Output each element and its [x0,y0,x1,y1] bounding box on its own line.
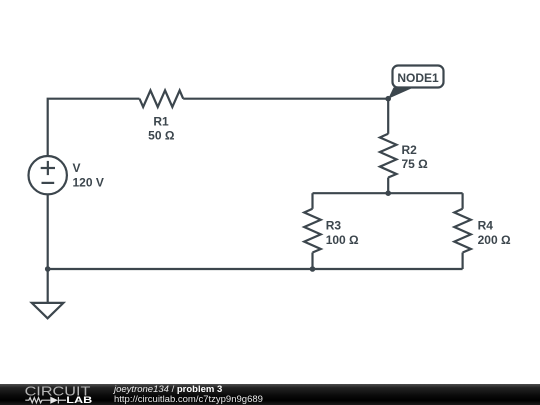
junction node R2 bottom [385,190,391,196]
wire middle rail to R3 [311,193,313,209]
wire top-left from source to R1 [48,99,140,156]
junction node ground [45,266,51,272]
resistor R2 [380,134,397,178]
wire left rail below source [47,194,49,269]
wire middle rail to R4 [462,193,464,209]
junction node at NODE1 [385,96,391,102]
wire R3 to bottom rail [311,253,313,270]
svg-text:100 Ω: 100 Ω [326,233,359,247]
svg-text:LAB: LAB [66,395,93,405]
credits text [114,384,263,405]
svg-text:120 V: 120 V [73,176,104,190]
footer bar [0,384,540,405]
svg-text:R1: R1 [153,114,169,128]
wire top from R1 to NODE1 junction [183,98,388,100]
resistor R1 [140,90,184,107]
wire bottom rail [48,268,463,270]
junction node R3 bottom [310,266,316,272]
svg-text:75 Ω: 75 Ω [402,157,429,171]
wire NODE1 junction down to R2 [387,99,389,134]
ground [32,303,64,318]
voltage source V [29,156,67,194]
resistor R4 [454,209,471,253]
svg-text:200 Ω: 200 Ω [478,233,511,247]
svg-text:R4: R4 [478,219,494,233]
wire R2 to middle rail [387,178,389,194]
svg-text:NODE1: NODE1 [397,71,439,85]
wire ground stem [47,269,49,303]
svg-text:V: V [73,161,81,175]
node flag NODE1 [388,66,443,99]
wire middle rail R3 to R4 [313,192,463,194]
svg-text:R2: R2 [402,143,418,157]
CircuitLab logo [0,384,100,405]
svg-text:50 Ω: 50 Ω [148,129,175,143]
svg-text:R3: R3 [326,219,342,233]
wire R4 to bottom rail [462,253,464,270]
resistor R3 [304,209,321,253]
